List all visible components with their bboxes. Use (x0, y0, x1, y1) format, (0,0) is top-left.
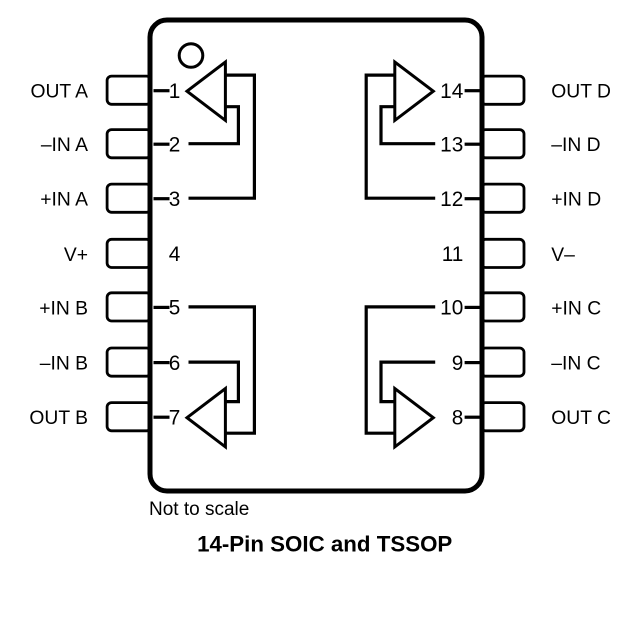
svg-text:3: 3 (169, 188, 181, 211)
svg-text:OUT B: OUT B (29, 408, 88, 429)
pin 13 stub (465, 143, 480, 146)
svg-text:+IN C: +IN C (551, 298, 601, 319)
pin 14 lead (481, 76, 524, 104)
wire -IN B (pin 6 to op-amp B) (189, 362, 239, 402)
svg-text:14-Pin SOIC and TSSOP: 14-Pin SOIC and TSSOP (197, 531, 452, 556)
svg-text:9: 9 (452, 352, 464, 375)
svg-text:+IN D: +IN D (551, 190, 601, 211)
pin 2 stub (154, 143, 170, 146)
svg-text:V–: V– (551, 245, 575, 266)
pin 1 index marker circle (179, 44, 203, 68)
svg-text:–IN C: –IN C (551, 354, 600, 375)
svg-text:+IN A: +IN A (40, 190, 88, 211)
wire +IN C (pin 10 to op-amp C) (366, 307, 435, 433)
pin 2 lead (107, 130, 151, 158)
pin 3 lead (107, 184, 151, 212)
pin 5 stub (154, 306, 170, 309)
pin 10 stub (465, 306, 480, 309)
svg-text:8: 8 (452, 407, 464, 430)
pin 1 stub (154, 89, 170, 92)
svg-text:Not to scale: Not to scale (149, 499, 249, 520)
svg-text:OUT A: OUT A (30, 82, 88, 103)
pin 8 lead (481, 403, 524, 431)
op-amp A (187, 62, 225, 120)
pin 7 stub (154, 416, 170, 419)
wire +IN A (pin 3 to op-amp A) (189, 75, 255, 198)
pin 11 lead (481, 239, 524, 267)
pin 4 lead (107, 239, 151, 267)
svg-text:2: 2 (169, 134, 181, 157)
svg-text:1: 1 (169, 80, 181, 103)
pin 8 stub (465, 416, 480, 419)
svg-text:+IN B: +IN B (39, 298, 88, 319)
svg-text:14: 14 (440, 80, 463, 103)
wire -IN D (pin 13 to op-amp D) (381, 107, 435, 144)
wire -IN C (pin 9 to op-amp C) (381, 362, 435, 402)
svg-text:OUT D: OUT D (551, 82, 611, 103)
pin 3 stub (154, 197, 170, 200)
op-amp C (395, 389, 434, 447)
svg-text:7: 7 (169, 407, 181, 430)
svg-text:11: 11 (442, 243, 464, 266)
svg-text:10: 10 (440, 297, 463, 320)
svg-text:OUT C: OUT C (551, 408, 611, 429)
wire -IN A (pin 2 to op-amp A) (189, 107, 239, 144)
pin 5 lead (107, 293, 151, 321)
pin 9 stub (465, 361, 480, 364)
pin 10 lead (481, 293, 524, 321)
svg-text:12: 12 (440, 188, 463, 211)
pin 6 lead (107, 348, 151, 376)
wire +IN D (pin 12 to op-amp D) (366, 75, 435, 198)
svg-text:13: 13 (440, 134, 463, 157)
svg-text:–IN A: –IN A (41, 135, 88, 156)
pin 1 lead (107, 76, 151, 104)
svg-text:4: 4 (169, 243, 181, 266)
svg-text:6: 6 (169, 352, 181, 375)
pin 7 lead (107, 403, 151, 431)
svg-text:–IN D: –IN D (551, 135, 600, 156)
wire +IN B (pin 5 to op-amp B) (189, 307, 255, 433)
svg-text:5: 5 (169, 297, 181, 320)
svg-text:V+: V+ (64, 245, 88, 266)
pin 12 stub (465, 197, 480, 200)
svg-text:–IN B: –IN B (40, 354, 88, 375)
op-amp B (187, 389, 225, 447)
pin 13 lead (481, 130, 524, 158)
pin 9 lead (481, 348, 524, 376)
pin 14 stub (465, 89, 480, 92)
op-amp D (395, 62, 434, 120)
pin 12 lead (481, 184, 524, 212)
IC body U1 (150, 20, 482, 491)
pin 6 stub (154, 361, 170, 364)
